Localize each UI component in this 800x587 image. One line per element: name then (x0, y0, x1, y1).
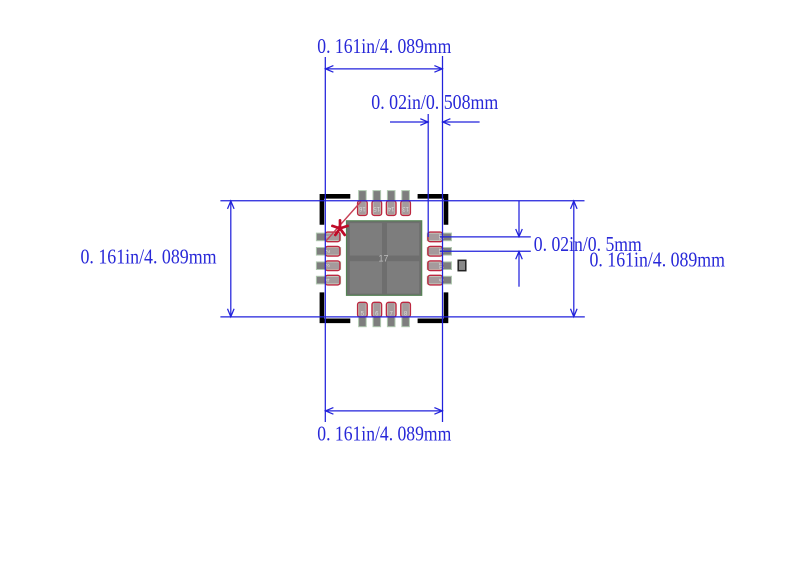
pad 1 mask (325, 232, 340, 242)
thermal pad 17 paste quadrant NW (350, 223, 382, 255)
courtyard corner bracket bottom-right (418, 292, 449, 323)
extension line pad 12 row (440, 236, 531, 238)
extension line pad 11 row (440, 250, 531, 252)
courtyard corner bracket top-right (418, 194, 449, 225)
pin1 indicator asterisk (332, 220, 347, 235)
orientation marker rectangle right of pad 10 (458, 260, 466, 270)
dimension line bottom width (325, 408, 442, 415)
pad 11 mask (428, 247, 443, 257)
pad 14 copper (387, 191, 395, 215)
pad 15 mask (372, 201, 382, 216)
courtyard corner bracket top-left (320, 194, 351, 225)
courtyard corner bracket bottom-left (320, 292, 351, 323)
pad 2 copper (316, 248, 340, 256)
pad 7 mask (386, 302, 396, 317)
pad 14 mask (386, 201, 396, 216)
dimension line top width (325, 66, 442, 73)
pad 4 mask (325, 275, 340, 285)
thermal pad 17 paste quadrant NE (387, 223, 419, 255)
extension line vertical pad pitch (427, 114, 429, 237)
pad 12 mask (428, 232, 443, 242)
pad 6 copper (373, 303, 381, 327)
extension line vertical left body edge (324, 57, 326, 422)
dimension line top pad pitch (390, 119, 480, 126)
pad 8 copper (402, 303, 410, 327)
pad 1 copper (316, 233, 340, 241)
pad 5 mask (358, 302, 368, 317)
pad 2 mask (325, 247, 340, 257)
pad 16 mask (358, 201, 368, 216)
pad 16 copper (359, 191, 367, 215)
svg-text:0. 161in/4. 089mm: 0. 161in/4. 089mm (317, 423, 451, 446)
pad 10 copper (427, 262, 451, 270)
extension line left top (220, 200, 584, 202)
svg-text:0. 161in/4. 089mm: 0. 161in/4. 089mm (81, 245, 217, 268)
svg-text:0. 161in/4. 089mm: 0. 161in/4. 089mm (317, 35, 451, 58)
pad 12 copper (427, 233, 451, 241)
svg-text:14: 14 (387, 205, 394, 211)
pad 15 copper (373, 191, 381, 215)
pad 5 copper (359, 303, 367, 327)
pad 7 copper (387, 303, 395, 327)
pad 10 mask (428, 261, 443, 271)
extension line vertical right body edge (442, 56, 444, 422)
pad 3 copper (316, 262, 340, 270)
pad 11 copper (427, 248, 451, 256)
svg-text:17: 17 (378, 253, 388, 263)
pad 8 mask (401, 302, 411, 317)
svg-text:16: 16 (358, 205, 365, 211)
pad 9 copper (427, 276, 451, 284)
svg-text:0. 161in/4. 089mm: 0. 161in/4. 089mm (590, 248, 726, 271)
thermal pad 17 body (347, 221, 422, 295)
thermal pad 17 paste quadrant SW (350, 261, 382, 293)
pad 3 mask (325, 261, 340, 271)
pad 4 copper (316, 276, 340, 284)
svg-text:13: 13 (402, 205, 409, 211)
pad 13 mask (401, 201, 411, 216)
svg-text:0. 02in/0. 508mm: 0. 02in/0. 508mm (371, 91, 498, 114)
dimension line right height (571, 201, 578, 317)
dimension line right pad pitch (516, 201, 523, 287)
extension line left bottom (220, 316, 584, 318)
pin1 indicator diagonal line (325, 202, 361, 242)
svg-text:15: 15 (373, 205, 380, 211)
dimension line left height (228, 201, 235, 317)
thermal pad 17 paste quadrant SE (387, 261, 419, 293)
pad 9 mask (428, 275, 443, 285)
pad 6 mask (372, 302, 382, 317)
pad 13 copper (402, 191, 410, 215)
